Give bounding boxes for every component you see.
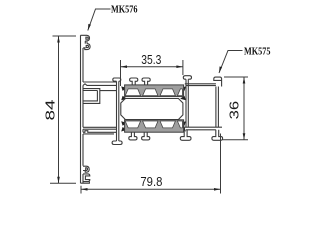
sash top hook 1 [130,78,138,85]
dimension 36 [223,77,249,140]
left profile top C-channel hook centers [86,37,89,47]
sash left top flange (T-hook) [113,78,121,141]
left profile top C-channel [81,35,91,50]
right box bottom foot right [212,130,223,141]
right box top-right hook [214,77,222,86]
svg-text:MK576: MK576 [111,4,138,15]
svg-text:84: 84 [43,100,58,121]
top thermal strip claws left [121,86,127,91]
label MK575 leader [219,51,243,74]
bottom thermal strip body [125,120,184,132]
left profile bottom hooks [83,166,89,172]
sash bottom foot 2 [142,132,150,140]
sash top hook 2 [142,78,150,85]
right box left T-hook [183,76,191,80]
wire left profile outer left wall [80,35,82,183]
left profile pocket bottom web [83,127,117,129]
left profile screw channel + pocket top [83,89,117,104]
top thermal strip body [125,85,184,97]
dimension 79.8 [81,134,221,194]
dimension 84 [50,36,76,183]
sash bottom-left foot [112,141,122,145]
label MK576 leader [88,9,111,31]
bottom thermal strip claws left [121,121,127,126]
top thermal strip claws right [180,86,186,91]
bottom thermal strip claws right [180,121,186,126]
left profile bottom cap [81,182,90,184]
sash bottom foot 1 [129,132,137,140]
right box walls [186,79,218,127]
left profile bottom shelf [83,131,117,134]
dimension 35.3 [121,60,183,86]
svg-text:35.3: 35.3 [141,52,161,67]
left profile top web [83,82,117,85]
sash central chamber [121,99,183,120]
right box bottom foot left [180,130,191,141]
wire left profile inner wall segments [82,50,84,183]
svg-text:79.8: 79.8 [140,174,162,189]
svg-text:36: 36 [226,101,241,120]
right box top/bottom webs [183,84,222,130]
svg-text:MK575: MK575 [244,46,271,57]
